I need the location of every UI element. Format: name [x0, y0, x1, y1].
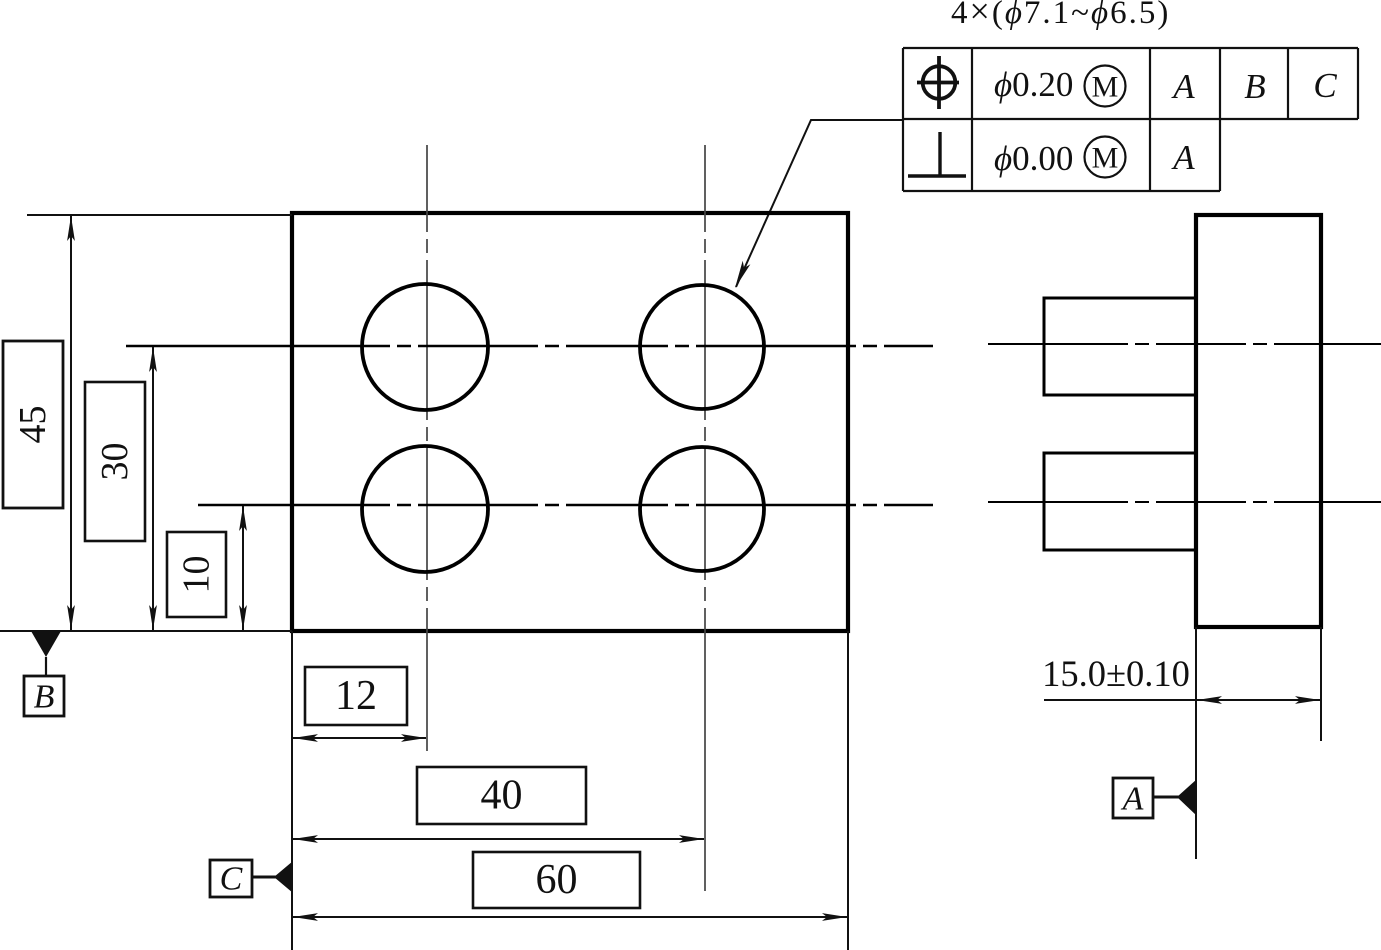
- leader arrowhead: [735, 261, 750, 288]
- front view outline: [292, 213, 848, 631]
- svg-text:45: 45: [12, 406, 54, 444]
- svg-text:C: C: [220, 861, 243, 898]
- svg-text:60: 60: [536, 857, 578, 903]
- side upper centerline: [988, 343, 1381, 345]
- svg-text:15.0±0.10: 15.0±0.10: [1042, 653, 1190, 694]
- side right extension line: [1320, 627, 1322, 741]
- svg-text:ϕ0.20: ϕ0.20: [994, 65, 1073, 104]
- svg-text:M: M: [1092, 142, 1119, 175]
- dim line 10: [239, 506, 247, 630]
- vertical centerline right holes: [704, 145, 706, 891]
- bottom extension line left: [0, 630, 292, 632]
- side view outline: [1196, 215, 1321, 627]
- svg-text:4×(ϕ7.1~ϕ6.5): 4×(ϕ7.1~ϕ6.5): [951, 0, 1170, 31]
- svg-text:30: 30: [94, 443, 136, 481]
- svg-text:A: A: [1171, 138, 1195, 177]
- side view upper boss: [1044, 298, 1196, 395]
- leader line from frame to hole: [736, 120, 903, 287]
- dim box 10: [167, 532, 226, 617]
- horizontal centerline upper holes: [126, 345, 933, 347]
- hole top-right: [640, 285, 764, 409]
- left extension line below view: [291, 631, 293, 950]
- svg-text:B: B: [34, 679, 55, 716]
- tolerance phi0.00 M row2: [994, 137, 1126, 179]
- dim box 60: [473, 852, 640, 908]
- perpendicularity symbol: [908, 132, 966, 176]
- dim box 12: [305, 667, 407, 725]
- dim line 60: [293, 913, 847, 921]
- vertical centerline left holes: [426, 145, 428, 751]
- datum B symbol: [24, 631, 64, 716]
- svg-text:12: 12: [335, 673, 377, 719]
- dim box 45: [3, 341, 63, 508]
- svg-text:B: B: [1244, 67, 1265, 106]
- dim box 30: [85, 382, 145, 541]
- position symbol: [917, 56, 959, 109]
- datum C symbol: [210, 860, 293, 898]
- tolerance phi0.20 M row1: [994, 65, 1126, 107]
- right extension line below view: [847, 631, 849, 950]
- svg-text:40: 40: [481, 773, 523, 819]
- feature control frame grid: [903, 48, 1358, 191]
- hole bottom-left: [362, 446, 488, 572]
- side left extension line: [1195, 627, 1197, 859]
- svg-text:A: A: [1171, 67, 1195, 106]
- side lower centerline: [988, 501, 1381, 503]
- datum A symbol: [1113, 778, 1197, 818]
- svg-text:C: C: [1313, 66, 1337, 105]
- dim line 12: [293, 734, 426, 742]
- svg-text:A: A: [1121, 781, 1144, 818]
- dim line 45: [67, 216, 75, 630]
- hole bottom-right: [640, 447, 764, 571]
- hole top-left: [362, 284, 488, 410]
- svg-text:10: 10: [176, 556, 218, 594]
- dim box 40: [417, 767, 586, 824]
- svg-text:M: M: [1092, 71, 1119, 104]
- top extension line: [27, 214, 292, 216]
- svg-text:ϕ0.00: ϕ0.00: [994, 139, 1073, 178]
- dim line 30: [149, 347, 157, 630]
- dim line 40: [293, 835, 704, 843]
- horizontal centerline lower holes: [198, 504, 933, 506]
- dim line 15.0: [1044, 696, 1321, 704]
- side view lower boss: [1044, 453, 1196, 550]
